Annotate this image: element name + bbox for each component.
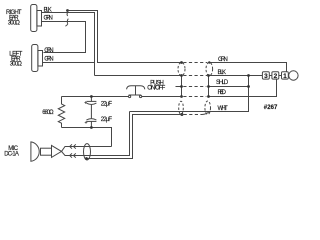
node cable left WHT [180,113,183,116]
top rail to switch [62,96,129,98]
switch push on/off button cap [127,86,145,90]
svg-text:22μF: 22μF [101,102,113,108]
wire GRN long dashed cable section [183,62,207,64]
node tip branch dot [66,9,69,12]
mic wire top [62,147,112,152]
switch output wire RED [142,96,182,98]
switch contact left [129,95,131,97]
wire SHLD stub [176,86,182,88]
svg-text:300Ω: 300Ω [10,61,23,67]
mic neck [41,148,52,155]
node cable right GRN [208,61,210,63]
node cable right RED [207,95,210,98]
svg-text:SHLD: SHLD [216,80,229,86]
svg-text:GRN: GRN [44,57,53,63]
wire mic shield merge ramp [202,112,209,115]
node cable left RED [180,95,183,98]
wire WHT line to plug junction [130,76,249,112]
svg-text:GRN: GRN [44,16,53,22]
svg-text:WHT: WHT [218,106,229,112]
svg-text:GRN: GRN [44,48,53,54]
bottom rail [62,128,112,147]
wire GRN from right ear to left ear top [42,22,86,53]
svg-text:RED: RED [218,90,227,96]
node cable left BLK [180,74,183,77]
svg-text:BLK: BLK [218,70,227,76]
node mic shield [85,157,88,160]
plug pin box 3 [262,72,269,79]
capacitor C2 22uF [86,119,96,120]
node cable left SHLD [180,85,183,88]
wire BLK from right ear [42,13,95,76]
right ear speaker body [31,5,37,32]
node cable right BLK [207,74,210,77]
cable oval right mic [205,101,211,114]
plus mark C2 [85,121,88,124]
svg-text:1: 1 [283,73,287,80]
chevrons mic top wire [70,144,76,148]
svg-text:ON/OFF: ON/OFF [147,86,165,92]
cable link left pair2 [181,76,183,97]
svg-text:680Ω: 680Ω [42,110,54,116]
capacitor C1 22uF [90,97,92,102]
wire BLK right section to plug pin 3 [209,75,263,77]
mic amp triangle [52,145,62,157]
switch stem [135,86,137,95]
left ear speaker terminal bracket [38,51,43,67]
switch contact right [140,95,142,97]
svg-text:2: 2 [274,73,278,80]
wire RED dashed cable section [183,96,206,98]
plug pin box 2 [272,72,279,79]
node plug junction SHLD [247,85,250,88]
wire tip line to plug tip [68,11,182,63]
cable oval left mic [179,101,184,114]
node plug junction BLK [247,74,250,77]
wire left ear bottom GRN to junction [43,62,95,64]
cable oval right pair1 [206,62,213,75]
right ear speaker terminal bracket [37,11,42,27]
wire GRN long right section into plug pin 1 [209,63,286,72]
wire SHLD right section [209,86,249,88]
wire mic shield dashed cable section [184,114,202,116]
svg-text:3: 3 [264,73,268,80]
svg-text:GRN: GRN [218,57,228,63]
svg-text:300Ω: 300Ω [8,20,21,26]
plug tip circle [289,71,298,80]
mic wire shield [87,115,184,159]
svg-text:22μF: 22μF [101,117,113,123]
wire BLK dashed cable section [183,75,207,77]
wire SHLD dashed cable section [183,86,206,88]
switch bridge [129,94,142,96]
mic wire mid [62,112,130,156]
svg-text:BLK: BLK [44,8,52,14]
node cable right SHLD [207,85,210,88]
chevrons mic mid wire [70,153,76,157]
svg-text:#267: #267 [264,105,278,111]
resistor R 680 ohm [58,97,64,128]
wire RED right section into plug pin 2 [209,79,277,96]
cable oval left pair1 [178,62,185,75]
svg-text:DC-1A: DC-1A [4,151,19,157]
cable link right pair2 [208,76,210,97]
mic dome [31,142,39,161]
node caps top [90,95,93,98]
plug box links [269,75,281,77]
connector arcs right ear cord [66,12,69,16]
plus mark C1 [84,101,87,104]
wire BLK long to plug sleeve [95,75,182,77]
node caps bottom [90,126,93,129]
plug pin box 1 [282,72,289,79]
left ear speaker body [32,45,38,72]
mic cable oval [84,144,91,160]
node cable left GRN [180,61,183,64]
